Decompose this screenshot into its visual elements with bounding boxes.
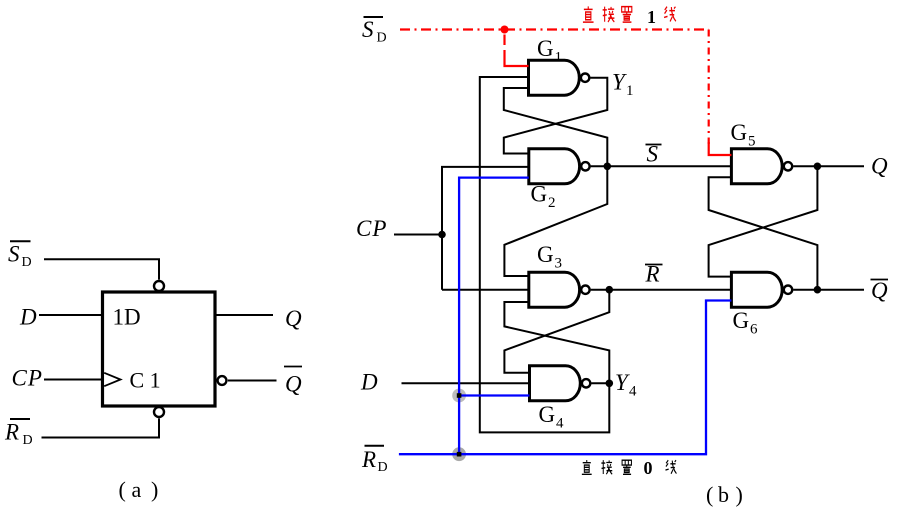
svg-text:Q: Q — [285, 372, 302, 397]
wire Q-bar output of G6 — [793, 289, 864, 291]
label set-0 line text (black) — [582, 458, 677, 478]
label set-1 line text (red) — [583, 6, 676, 27]
node gray junction ring D row — [452, 389, 466, 403]
wire set-0 line blue horizontal — [399, 301, 732, 455]
wire set-1 line red dash-dot horizontal — [400, 28, 709, 30]
label G3 — [537, 242, 562, 272]
label SD-bar (b) — [362, 17, 387, 46]
svg-text:G: G — [733, 308, 750, 333]
caption (a) — [119, 477, 159, 502]
wire S-bar down to G3 input — [504, 166, 607, 276]
label C1 — [130, 368, 161, 393]
label D (b) — [360, 369, 378, 394]
svg-text:1D: 1D — [113, 305, 141, 330]
wire Y4 feedback loop to G1 input — [480, 77, 610, 432]
svg-text:D: D — [22, 255, 32, 270]
wire red solid into G5 input — [709, 142, 732, 155]
wire S-bar to G1 input (cross coupling) — [504, 88, 608, 166]
node Y4 junction — [606, 380, 614, 388]
bubble Q-bar output — [218, 376, 227, 385]
wire red dash-dot drop to G5 — [708, 30, 710, 145]
svg-text:Y: Y — [615, 370, 630, 395]
label S-bar node — [646, 142, 662, 167]
svg-text:(: ( — [119, 477, 126, 502]
nand gate G5 — [731, 149, 792, 184]
svg-text:D: D — [19, 305, 37, 330]
svg-text:6: 6 — [750, 322, 758, 338]
bubble reset input (bottom) — [154, 407, 164, 417]
label SD-bar (a) — [8, 241, 32, 270]
svg-text:S: S — [8, 242, 20, 267]
clock triangle — [104, 373, 120, 386]
svg-text:(: ( — [706, 482, 713, 507]
wire R-bar down to G4 input (cross coupling) — [504, 290, 609, 373]
wire CP input (a) — [44, 379, 104, 381]
caption (b) — [706, 482, 743, 507]
wire red dashed drop to G1 — [503, 35, 505, 46]
svg-text:0: 0 — [644, 458, 653, 478]
label Q-bar (a) — [284, 367, 302, 397]
wire CP to G3 — [442, 289, 529, 291]
wire D input to G4 — [402, 382, 530, 384]
svg-text:D: D — [377, 31, 387, 46]
svg-text:): ) — [736, 482, 743, 507]
svg-text:3: 3 — [555, 256, 563, 272]
label G5 — [731, 120, 756, 150]
wire Q-bar output (a) — [228, 380, 277, 382]
svg-text:b: b — [718, 482, 729, 507]
svg-text:2: 2 — [548, 195, 556, 211]
wire Q output (a) — [215, 314, 273, 316]
label RD-bar (a) — [4, 419, 33, 448]
nand gate G3 — [529, 272, 590, 307]
svg-text:Q: Q — [871, 154, 888, 179]
wire Q output of G5 — [793, 165, 864, 167]
svg-text:1: 1 — [555, 50, 563, 66]
svg-text:G: G — [531, 182, 548, 207]
svg-text:G: G — [537, 36, 554, 61]
node Q junction — [814, 163, 822, 171]
wire blue RD to G4 input — [459, 394, 529, 396]
svg-text:D: D — [360, 369, 378, 394]
svg-text:R: R — [361, 447, 376, 472]
wire red solid into G1 input — [505, 50, 529, 66]
wire R-bar from G3 to G6 — [591, 289, 732, 291]
label Q (a) — [285, 306, 302, 331]
label G6 — [733, 308, 759, 338]
wire Q-bar to G5 input (cross coupling) — [709, 177, 818, 289]
label Y4 — [615, 370, 637, 400]
label R-bar node — [645, 262, 663, 287]
bubble set input (top) — [154, 281, 164, 291]
label Y1 — [612, 70, 634, 100]
label Q (b) — [871, 154, 888, 179]
label CP (a) — [12, 366, 43, 391]
nand gate G4 — [530, 366, 591, 401]
wire SD input (a) — [44, 259, 159, 279]
node S-bar junction — [604, 163, 612, 171]
label D (a) — [19, 305, 37, 330]
svg-text:1: 1 — [626, 83, 634, 99]
nand gate G6 — [731, 272, 792, 307]
node gray junction center RD row — [457, 452, 462, 457]
svg-text:4: 4 — [556, 416, 564, 432]
label RD-bar (b) — [361, 446, 388, 475]
wire RD input (a) — [42, 418, 160, 437]
svg-text:a: a — [132, 477, 142, 502]
svg-text:CP: CP — [12, 366, 43, 391]
svg-text:1: 1 — [647, 7, 656, 27]
svg-text:5: 5 — [748, 134, 756, 150]
node Q-bar junction — [814, 286, 822, 294]
node CP junction — [438, 231, 446, 239]
svg-text:4: 4 — [629, 384, 637, 400]
wire Y1 output to G2 input (cross coupling) — [504, 78, 608, 154]
svg-text:G: G — [539, 402, 556, 427]
wire blue RD to G2 input — [459, 178, 529, 455]
label G4 — [539, 402, 565, 432]
label G1 — [537, 36, 562, 66]
svg-text:CP: CP — [356, 216, 387, 241]
svg-text:G: G — [537, 242, 554, 267]
label Q-bar (b) — [871, 278, 889, 303]
svg-text:Y: Y — [612, 70, 627, 95]
svg-text:Q: Q — [285, 306, 302, 331]
svg-text:): ) — [151, 477, 158, 502]
node gray junction ring RD row — [452, 447, 466, 461]
svg-text:D: D — [23, 433, 33, 448]
node R-bar junction — [606, 286, 614, 294]
flip-flop block U1 (a) — [103, 292, 216, 406]
wire Q to G6 input (cross coupling) — [709, 166, 818, 276]
wire G3 input from Y4 (cross coupling) — [504, 302, 609, 383]
wire D input (a) — [39, 314, 103, 316]
label CP (b) — [356, 216, 387, 241]
svg-text:S: S — [362, 17, 374, 42]
svg-text:C 1: C 1 — [130, 368, 161, 393]
nand gate G1 — [529, 60, 590, 95]
svg-text:G: G — [731, 120, 748, 145]
nand gate G2 — [529, 149, 590, 184]
node red junction on set line — [501, 26, 509, 34]
wire Y4 output — [591, 382, 609, 384]
svg-text:D: D — [378, 460, 388, 475]
node gray junction center D row — [457, 393, 462, 398]
wire S-bar from G2 to G5 — [591, 165, 732, 167]
wire CP vertical branch — [442, 167, 529, 290]
svg-text:Q: Q — [871, 278, 888, 303]
label 1D — [113, 305, 141, 330]
wire CP input stub — [394, 234, 442, 236]
label G2 — [531, 182, 556, 212]
svg-text:R: R — [4, 420, 19, 445]
